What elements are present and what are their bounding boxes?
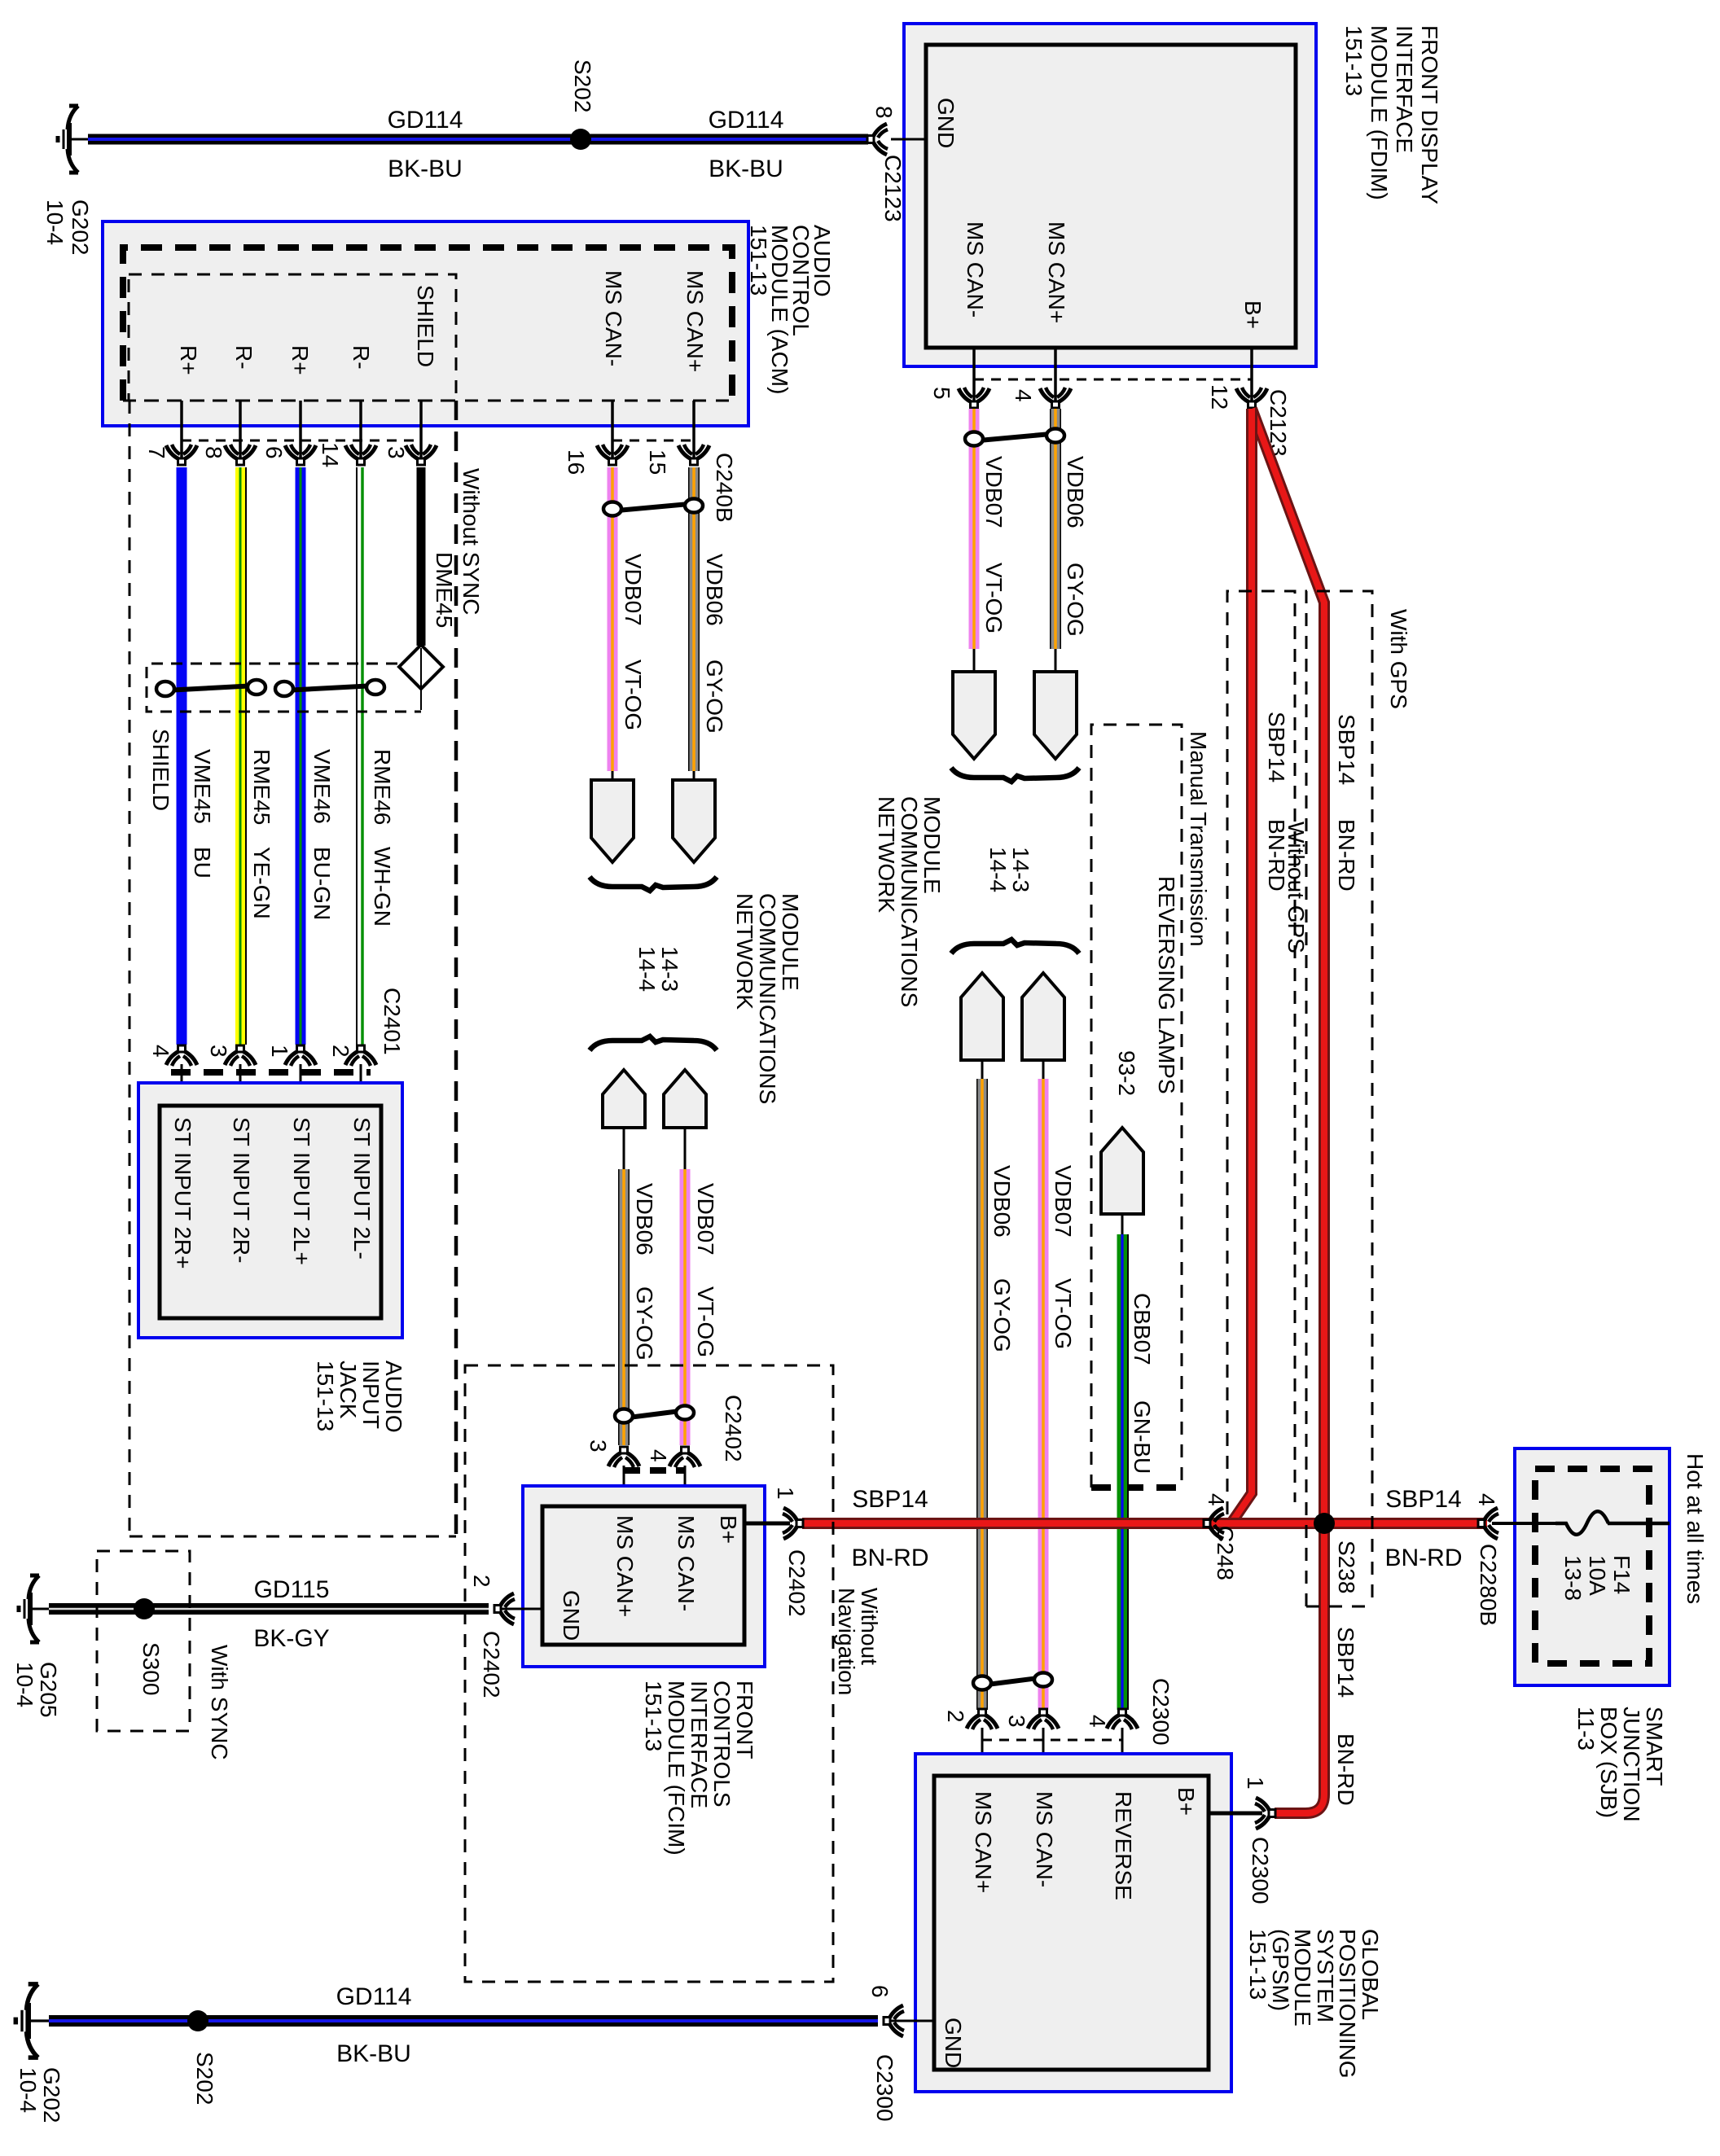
svg-text:RME45: RME45 [249, 749, 274, 825]
svg-text:2: 2 [469, 1575, 494, 1588]
splice S300 [134, 1598, 155, 1619]
svg-text:BU-GN: BU-GN [309, 847, 335, 920]
svg-text:R+: R+ [176, 345, 201, 375]
svg-text:2: 2 [328, 1045, 353, 1058]
svg-text:GLOBAL: GLOBAL [1358, 1929, 1383, 2020]
svg-text:VDB06: VDB06 [632, 1183, 657, 1255]
svg-text:C2123: C2123 [880, 155, 906, 222]
svg-text:14-4: 14-4 [634, 946, 660, 992]
svg-text:FRONT: FRONT [732, 1681, 757, 1759]
svg-text:MODULE (FCIM): MODULE (FCIM) [664, 1681, 689, 1856]
off-page connectors (down) left pair [612, 771, 614, 782]
svg-text:GD114: GD114 [388, 107, 463, 134]
svg-text:NETWORK: NETWORK [732, 893, 757, 1010]
svg-text:2: 2 [943, 1710, 968, 1723]
off-page connector (down) pair right [973, 649, 976, 674]
svg-text:4: 4 [1474, 1493, 1499, 1506]
svg-text:4: 4 [1011, 389, 1036, 402]
svg-text:VDB07: VDB07 [621, 554, 646, 626]
svg-text:4: 4 [1204, 1493, 1229, 1506]
svg-text:SMART: SMART [1642, 1707, 1667, 1786]
svg-text:ST INPUT 2L+: ST INPUT 2L+ [289, 1117, 314, 1265]
wire VDB06 GY-OG (ACM MS CAN+) [688, 467, 700, 771]
svg-text:G202: G202 [39, 2067, 64, 2123]
svg-text:AUDIO: AUDIO [381, 1361, 406, 1433]
svg-text:INPUT: INPUT [358, 1361, 384, 1429]
wire GD115 BK-GY [49, 1603, 489, 1615]
svg-text:WH-GN: WH-GN [370, 847, 395, 927]
svg-text:GD115: GD115 [254, 1576, 330, 1603]
svg-text:6: 6 [261, 446, 287, 459]
dashed box With SYNC [97, 1551, 190, 1731]
module ACM (AUDIO CONTROL MODULE) [103, 221, 748, 426]
svg-text:151-13: 151-13 [746, 225, 771, 296]
svg-text:SHIELD: SHIELD [413, 285, 438, 367]
off-page connector (up) reversing [1101, 1128, 1143, 1214]
svg-text:With SYNC: With SYNC [207, 1645, 232, 1760]
splice S202 (bottom) [187, 2010, 208, 2031]
svg-text:B+: B+ [1174, 1787, 1199, 1816]
wire SBP14 BN-RD : Without GPS vertical [1232, 409, 1252, 1522]
svg-text:MS CAN-: MS CAN- [963, 221, 988, 318]
svg-text:ST INPUT 2R-: ST INPUT 2R- [229, 1117, 254, 1263]
dashed box REVERSING LAMPS [1091, 725, 1182, 1488]
svg-text:Hot at all times: Hot at all times [1683, 1453, 1708, 1604]
ground G202 (bottom) [15, 1984, 49, 2057]
wire VDB06 GY-OG (to FCIM MS CAN+) [618, 1169, 630, 1445]
svg-text:S238: S238 [1334, 1540, 1359, 1593]
svg-text:F14: F14 [1609, 1555, 1634, 1594]
svg-text:GD114: GD114 [709, 107, 784, 134]
svg-text:GY-OG: GY-OG [1063, 563, 1088, 637]
svg-text:5: 5 [929, 387, 954, 400]
svg-text:R+: R+ [287, 345, 313, 375]
twisted pair symbol [979, 434, 1051, 440]
svg-text:SBP14: SBP14 [1264, 712, 1289, 782]
svg-text:BU: BU [190, 847, 215, 879]
svg-text:VME45: VME45 [190, 749, 215, 824]
svg-text:1: 1 [1243, 1777, 1268, 1790]
svg-text:10-4: 10-4 [42, 199, 68, 245]
svg-text:4: 4 [148, 1045, 173, 1058]
svg-text:MS CAN-: MS CAN- [1032, 1791, 1057, 1887]
svg-text:15: 15 [645, 449, 670, 475]
svg-text:REVERSING LAMPS: REVERSING LAMPS [1154, 876, 1179, 1094]
svg-text:CONTROLS: CONTROLS [709, 1681, 735, 1808]
svg-text:COMMUNICATIONS: COMMUNICATIONS [897, 796, 922, 1007]
svg-text:C2300: C2300 [872, 2054, 897, 2122]
svg-text:93-2: 93-2 [1114, 1050, 1139, 1096]
svg-text:3: 3 [1004, 1715, 1029, 1728]
connector C2123 dashed pin line [974, 379, 1252, 381]
svg-text:10A: 10A [1585, 1555, 1610, 1596]
svg-text:12: 12 [1207, 384, 1232, 410]
svg-text:6: 6 [867, 1985, 893, 1998]
connector C2402 top pins [608, 1447, 639, 1467]
FCIM B+ pin 1 to red bus [744, 1522, 790, 1526]
svg-text:GY-OG: GY-OG [702, 660, 727, 734]
svg-text:FRONT DISPLAY: FRONT DISPLAY [1417, 25, 1442, 204]
svg-text:VME46: VME46 [309, 749, 335, 824]
brace [951, 768, 1079, 782]
svg-text:C2401: C2401 [380, 988, 405, 1055]
svg-text:3: 3 [206, 1045, 231, 1058]
svg-text:VDB06: VDB06 [702, 554, 727, 626]
svg-text:DME45: DME45 [432, 552, 457, 628]
svg-text:COMMUNICATIONS: COMMUNICATIONS [755, 893, 780, 1104]
svg-text:C2300: C2300 [1148, 1678, 1174, 1746]
svg-text:VT-OG: VT-OG [693, 1286, 718, 1357]
connector C2300 top pins [967, 1709, 998, 1729]
brace [590, 877, 717, 891]
svg-text:13-8: 13-8 [1560, 1555, 1586, 1601]
fuse F14 10A [1492, 1522, 1555, 1525]
svg-text:3: 3 [586, 1440, 611, 1453]
GPSM B+ pin 1 [1209, 1812, 1262, 1816]
svg-text:With GPS: With GPS [1386, 609, 1411, 709]
svg-text:C240B: C240B [712, 453, 737, 523]
wire VME46 BU-GN [296, 467, 306, 1045]
svg-text:Manual Transmission: Manual Transmission [1186, 731, 1211, 947]
svg-text:GND: GND [941, 2018, 966, 2068]
svg-text:MS CAN+: MS CAN+ [682, 270, 708, 372]
svg-text:151-13: 151-13 [1341, 25, 1367, 96]
svg-text:SBP14: SBP14 [852, 1486, 928, 1513]
svg-text:R-: R- [349, 345, 374, 370]
svg-text:BN-RD: BN-RD [1333, 1733, 1358, 1806]
svg-text:GND: GND [559, 1590, 584, 1641]
svg-text:SBP14: SBP14 [1385, 1486, 1461, 1513]
wire VDB06 GY-OG (to GPSM MS CAN+) [976, 1079, 988, 1710]
svg-text:G205: G205 [36, 1662, 61, 1718]
svg-text:MODULE: MODULE [919, 796, 945, 894]
wire VME45 BU [177, 467, 187, 1045]
svg-text:C2280B: C2280B [1476, 1544, 1501, 1626]
svg-text:MODULE (FDIM): MODULE (FDIM) [1367, 25, 1392, 200]
splice S238 [1314, 1513, 1335, 1534]
svg-text:YE-GN: YE-GN [249, 847, 274, 919]
svg-text:MS CAN+: MS CAN+ [1044, 221, 1069, 323]
module SJB (SMART JUNCTION BOX) [1515, 1448, 1670, 1685]
svg-text:151-13: 151-13 [1245, 1929, 1270, 2000]
svg-text:REVERSE: REVERSE [1111, 1791, 1136, 1900]
module FDIM (FRONT DISPLAY INTERFACE MODULE) [904, 24, 1316, 366]
svg-text:BN-RD: BN-RD [1264, 819, 1289, 892]
FCIM GND pin 2 [500, 1608, 542, 1610]
svg-text:8: 8 [871, 106, 897, 119]
svg-text:CBB07: CBB07 [1130, 1293, 1155, 1365]
svg-text:SHIELD: SHIELD [148, 729, 173, 811]
ACM pins 16 15 / connector C240B [611, 401, 614, 461]
wire VDB07 VT-OG (FDIM MS CAN-) [969, 409, 980, 649]
svg-text:C248: C248 [1213, 1526, 1238, 1580]
svg-text:RME46: RME46 [370, 749, 395, 825]
svg-text:S202: S202 [570, 59, 595, 112]
svg-text:ST INPUT 2L-: ST INPUT 2L- [349, 1117, 375, 1260]
svg-text:VT-OG: VT-OG [981, 563, 1007, 633]
svg-text:VT-OG: VT-OG [621, 660, 646, 730]
dashed box Without Navigation [465, 1365, 833, 1982]
svg-text:GY-OG: GY-OG [989, 1278, 1015, 1352]
svg-text:VT-OG: VT-OG [1051, 1278, 1076, 1349]
dashed shield box + twisted pairs [147, 664, 421, 712]
svg-text:Navigation: Navigation [834, 1588, 859, 1695]
svg-text:14: 14 [318, 442, 343, 467]
dashed box With GPS [1306, 591, 1372, 1606]
svg-text:GND: GND [933, 98, 959, 148]
connector C248 pin 4 [1204, 1508, 1224, 1539]
svg-text:7: 7 [144, 446, 169, 459]
dashed Without SYNC region [129, 401, 131, 1536]
svg-text:BOX (SJB): BOX (SJB) [1596, 1707, 1621, 1818]
brace [951, 940, 1079, 953]
svg-text:VDB06: VDB06 [989, 1165, 1015, 1238]
svg-text:BK-BU: BK-BU [388, 156, 463, 182]
svg-text:10-4: 10-4 [12, 1662, 37, 1707]
svg-text:VDB06: VDB06 [1063, 456, 1088, 528]
off-page connector (up) pair right [961, 973, 1003, 1060]
wire RME46 WH-GN [356, 467, 358, 1045]
svg-text:SBP14: SBP14 [1334, 714, 1359, 785]
connector C2401 [166, 1045, 197, 1066]
svg-text:VDB07: VDB07 [693, 1183, 718, 1255]
svg-text:SYSTEM: SYSTEM [1313, 1929, 1338, 2022]
svg-text:Without SYNC: Without SYNC [459, 468, 484, 616]
svg-text:BK-BU: BK-BU [709, 156, 783, 182]
svg-text:MS CAN-: MS CAN- [601, 270, 626, 366]
svg-text:10-4: 10-4 [15, 2067, 41, 2113]
svg-text:1: 1 [267, 1045, 292, 1058]
svg-text:1: 1 [773, 1487, 798, 1500]
svg-text:B+: B+ [716, 1515, 741, 1544]
svg-text:MODULE: MODULE [778, 893, 803, 991]
ACM pin numbers 7 8 6 14 3 [166, 445, 197, 465]
svg-text:GN-BU: GN-BU [1130, 1400, 1155, 1474]
svg-text:4: 4 [1085, 1715, 1110, 1728]
wire GD114 BK-BU (bottom) [49, 2015, 878, 2027]
svg-text:BN-RD: BN-RD [1385, 1545, 1463, 1571]
svg-text:14-3: 14-3 [1008, 847, 1033, 892]
ground G205 [19, 1575, 49, 1642]
svg-text:BK-GY: BK-GY [253, 1625, 329, 1652]
svg-text:GD114: GD114 [336, 1983, 412, 2010]
svg-text:14-4: 14-4 [985, 847, 1011, 892]
wire VDB06 GY-OG (FDIM MS CAN+) [1050, 409, 1061, 649]
svg-text:11-3: 11-3 [1573, 1707, 1599, 1751]
svg-text:INTERFACE: INTERFACE [1392, 25, 1417, 153]
svg-text:SBP14: SBP14 [1333, 1627, 1358, 1698]
svg-text:S300: S300 [138, 1642, 164, 1695]
module GPSM (GLOBAL POSITIONING SYSTEM MODULE) [915, 1754, 1231, 2092]
wire VDB07 VT-OG (to FCIM MS CAN-) [680, 1169, 691, 1445]
twisted pair [629, 1411, 680, 1418]
svg-text:MS CAN+: MS CAN+ [971, 1791, 996, 1893]
brace [590, 1036, 717, 1050]
svg-text:Without: Without [857, 1588, 882, 1665]
splice S202 [570, 129, 591, 150]
wire DME45 shield drain [417, 467, 426, 646]
svg-text:16: 16 [564, 449, 589, 475]
svg-text:NETWORK: NETWORK [874, 796, 899, 913]
dashed box Without GPS [1227, 591, 1295, 1514]
svg-text:VDB07: VDB07 [1051, 1165, 1076, 1238]
svg-text:VDB07: VDB07 [981, 456, 1007, 528]
svg-text:G202: G202 [68, 199, 93, 256]
svg-text:BN-RD: BN-RD [852, 1545, 929, 1571]
wire SBP14 BN-RD : horizontal bus [802, 1518, 1487, 1529]
svg-text:(GPSM): (GPSM) [1268, 1929, 1293, 2011]
svg-text:ST INPUT 2R+: ST INPUT 2R+ [170, 1117, 195, 1269]
wire VDB07 VT-OG (to GPSM MS CAN-) [1038, 1079, 1049, 1710]
svg-text:BN-RD: BN-RD [1334, 819, 1359, 892]
svg-text:C2402: C2402 [479, 1631, 504, 1698]
wire RME45 YE-GN [235, 467, 245, 1045]
ground G202 (top left) [58, 106, 88, 173]
connector C2123 pin 8 (FDIM GND) [867, 124, 888, 155]
svg-text:JACK: JACK [336, 1361, 361, 1419]
svg-text:R-: R- [231, 345, 257, 370]
wire VDB07 VT-OG (ACM MS CAN-) [608, 467, 618, 771]
FDIM pin GND [891, 138, 926, 141]
svg-text:151-13: 151-13 [641, 1681, 666, 1751]
twisted pair [617, 504, 689, 511]
module AUDIO INPUT JACK [138, 1083, 402, 1338]
svg-text:S202: S202 [192, 2052, 217, 2105]
svg-text:GY-OG: GY-OG [632, 1286, 657, 1361]
svg-text:JUNCTION: JUNCTION [1619, 1707, 1644, 1822]
svg-text:14-3: 14-3 [657, 946, 682, 992]
svg-text:C2402: C2402 [721, 1395, 746, 1462]
svg-text:MS CAN-: MS CAN- [674, 1515, 699, 1611]
off-page connectors (up) left pair [603, 1070, 645, 1128]
connector C2280B pin 4 [1478, 1508, 1498, 1539]
module FCIM (FRONT CONTROLS INTERFACE MODULE) [523, 1486, 765, 1667]
svg-text:4: 4 [646, 1449, 671, 1462]
wire SBP14 BN-RD : FDIM B+ via With GPS path [1252, 409, 1324, 1813]
svg-text:INTERFACE: INTERFACE [687, 1681, 712, 1808]
svg-text:3: 3 [384, 446, 409, 459]
shield diamond [399, 645, 443, 689]
wire CBB07 GN-BU [1117, 1234, 1128, 1710]
GPSM GND pin 6 [891, 2020, 934, 2022]
svg-text:151-13: 151-13 [313, 1361, 338, 1431]
svg-text:8: 8 [201, 446, 226, 459]
wire GD114 BK-BU (top) [88, 134, 868, 145]
svg-text:B+: B+ [1240, 300, 1266, 329]
svg-text:C2402: C2402 [784, 1549, 810, 1617]
svg-text:BK-BU: BK-BU [336, 2040, 411, 2067]
svg-text:C2300: C2300 [1248, 1837, 1273, 1904]
svg-text:MS CAN+: MS CAN+ [612, 1515, 638, 1617]
